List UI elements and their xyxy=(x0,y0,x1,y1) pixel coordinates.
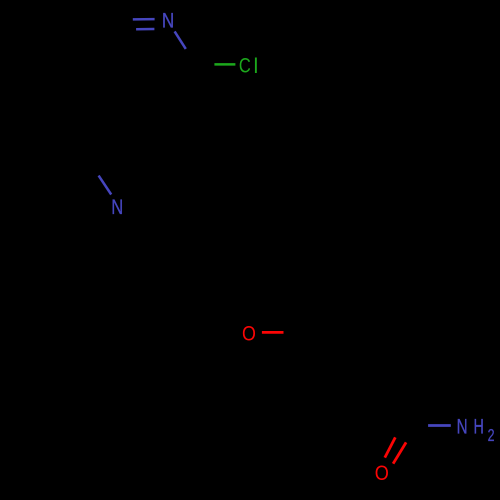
bond N1-C2 (blue half) xyxy=(175,31,186,49)
svg-text:l: l xyxy=(253,54,258,78)
bond N1=C (main line, blue half) xyxy=(133,18,155,21)
bond C=O2 line A (red half) xyxy=(385,437,396,457)
bond N1=C (inner double line, blue half) xyxy=(136,28,154,31)
bond C2-Cl (green half) xyxy=(214,63,235,66)
svg-text:H: H xyxy=(473,415,483,439)
svg-text:N: N xyxy=(457,415,468,439)
bond C-N3 (blue half) xyxy=(428,424,451,427)
svg-text:O: O xyxy=(242,322,256,346)
svg-text:2: 2 xyxy=(488,425,495,445)
svg-text:O: O xyxy=(375,461,389,485)
svg-text:C: C xyxy=(239,54,251,78)
bond C=O2 line B (red half) xyxy=(393,442,406,463)
svg-text:N: N xyxy=(111,195,123,219)
bond C-N2 (blue half) xyxy=(99,176,112,195)
bond O1-C (red half) xyxy=(262,331,284,334)
svg-text:N: N xyxy=(162,9,174,33)
